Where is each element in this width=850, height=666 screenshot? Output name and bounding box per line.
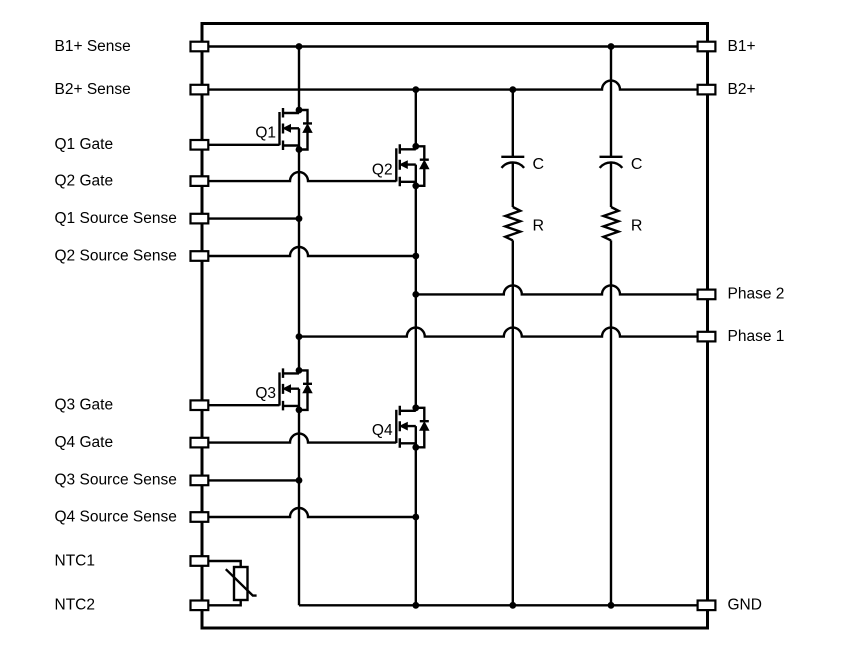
pin Q4 Source Sense	[191, 512, 209, 522]
wire Q4 Source Sense, hop over Q3 source bus	[208, 508, 415, 517]
thermistor NTC body	[234, 567, 248, 600]
wire R2 bottom to GND	[610, 240, 612, 605]
pin B2+ Sense	[191, 85, 209, 95]
node GND / Q4 source junction	[412, 602, 419, 609]
wire Q3 Gate	[208, 404, 279, 406]
IC outer box	[202, 24, 708, 629]
svg-text:GND: GND	[728, 597, 762, 614]
svg-text:NTC1: NTC1	[55, 552, 95, 569]
node Q3 source sense junction	[296, 477, 303, 484]
wire B2+ sense to Q2 drain	[415, 90, 417, 147]
node B2+ / Q2 drain junction	[412, 86, 419, 93]
wire B2+ to C1 top	[512, 90, 514, 157]
svg-text:Q3 Gate: Q3 Gate	[55, 397, 114, 414]
svg-text:C: C	[533, 156, 545, 173]
pin Phase 1	[698, 332, 716, 342]
wire R1 bottom to GND	[512, 240, 514, 605]
svg-text:Q1: Q1	[255, 124, 276, 141]
wire Phase 1 net, hops over Q2/Q4 bus and RC legs	[299, 328, 698, 337]
node Q4 source sense junction	[412, 514, 419, 521]
pin NTC1	[191, 556, 209, 566]
capacitor C1 and resistor R1	[501, 157, 524, 241]
wire Q2 Source Sense, hop over Q1 source bus	[208, 247, 415, 256]
pin B2+	[698, 85, 716, 95]
wire NTC1 to thermistor top	[208, 561, 240, 567]
wire Phase 2 net, hops over RC legs	[416, 285, 698, 294]
wire Q1 Source Sense	[208, 217, 299, 219]
pin Q2 Source Sense	[191, 251, 209, 261]
wire thermistor bottom to NTC2	[208, 600, 240, 605]
pin Q3 Source Sense	[191, 476, 209, 486]
node B1+ / C2 leg junction	[608, 43, 615, 50]
svg-text:B2+: B2+	[728, 81, 756, 98]
wire C1 bottom to R1 top	[512, 163, 514, 207]
transistor Q3	[280, 367, 313, 413]
svg-text:Q2: Q2	[372, 162, 393, 179]
node B1+ sense / Q1 drain junction	[296, 43, 303, 50]
wire Q2 source bus down to Q4 drain	[415, 186, 417, 408]
wire Q4 source down to GND	[415, 447, 417, 605]
node GND / R2 junction	[608, 602, 615, 609]
node Phase 2 junction	[412, 291, 419, 298]
svg-text:B1+: B1+	[728, 38, 756, 55]
svg-text:B1+ Sense: B1+ Sense	[55, 38, 131, 55]
node Q2 source sense junction	[412, 253, 419, 260]
pin NTC2	[191, 601, 209, 611]
transistor Q4	[396, 404, 429, 450]
pin Q4 Gate	[191, 438, 209, 448]
svg-text:Q4: Q4	[372, 422, 393, 439]
thermistor NTC diagonal stroke	[226, 569, 257, 595]
svg-text:Q2 Source Sense: Q2 Source Sense	[55, 247, 177, 264]
wire Q2 Gate, hop over Q1 source bus	[208, 172, 396, 181]
wire B2+ Sense net (row 2), hop over C2/R2 leg	[208, 81, 697, 90]
wire B1+ to C2 top	[610, 47, 612, 157]
svg-text:Q1 Gate: Q1 Gate	[55, 136, 114, 153]
wire Q1 source bus down to Q3 drain	[298, 150, 300, 371]
node GND / R1 junction	[509, 602, 516, 609]
pin Phase 2	[698, 290, 716, 300]
svg-text:B2+ Sense: B2+ Sense	[55, 81, 131, 98]
svg-text:C: C	[631, 156, 643, 173]
wire Q3 Source Sense	[208, 479, 299, 481]
svg-text:Q1 Source Sense: Q1 Source Sense	[55, 210, 177, 227]
transistor Q1 (N-MOSFET with body diode)	[280, 107, 313, 153]
svg-text:Q4 Source Sense: Q4 Source Sense	[55, 508, 177, 525]
pin Q2 Gate	[191, 176, 209, 186]
capacitor C2 and resistor R2	[600, 157, 623, 241]
wire GND net (bottom bus)	[299, 604, 698, 606]
pin GND	[698, 601, 716, 611]
wire C2 bottom to R2 top	[610, 163, 612, 207]
svg-text:Phase 2: Phase 2	[728, 286, 785, 303]
wire B1+ Sense net (row 1)	[208, 45, 697, 47]
wire Q3 source bus down to GND corner	[298, 410, 300, 605]
pin Q1 Source Sense	[191, 214, 209, 224]
svg-text:Q3 Source Sense: Q3 Source Sense	[55, 472, 177, 489]
svg-text:Q3: Q3	[255, 385, 276, 402]
pin Q3 Gate	[191, 400, 209, 410]
node Q1 source sense junction	[296, 215, 303, 222]
wire Q1 Gate	[208, 144, 279, 146]
svg-text:Q2 Gate: Q2 Gate	[55, 172, 114, 189]
svg-text:R: R	[631, 218, 643, 235]
pin B1+ Sense	[191, 42, 209, 52]
pin B1+	[698, 42, 716, 52]
svg-text:Q4 Gate: Q4 Gate	[55, 434, 114, 451]
svg-text:NTC2: NTC2	[55, 597, 95, 614]
node Phase 1 junction	[296, 333, 303, 340]
svg-text:R: R	[533, 218, 545, 235]
wire B1+ sense to Q1 drain	[298, 47, 300, 111]
wire Q4 Gate, hop over Q3 source bus	[208, 434, 396, 443]
pin Q1 Gate	[191, 140, 209, 150]
node B2+ / C1 leg junction	[509, 86, 516, 93]
svg-text:Phase 1: Phase 1	[728, 328, 785, 345]
transistor Q2	[396, 143, 429, 189]
